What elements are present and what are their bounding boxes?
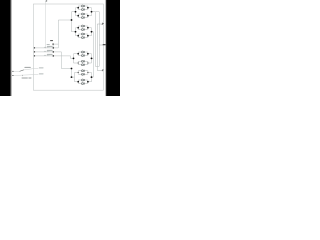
wire feeder link horizontal xyxy=(58,19,71,21)
node D8 left xyxy=(77,81,79,83)
wire module3 feed jog xyxy=(71,56,74,59)
wire right channel link xyxy=(95,65,99,67)
node D5 left xyxy=(77,53,79,55)
node D1 left xyxy=(77,7,79,9)
wire module1 feed xyxy=(72,11,76,13)
wire module4 feed xyxy=(72,76,75,78)
wire module3 right bus xyxy=(91,54,93,63)
label mains text2 xyxy=(28,77,31,78)
wire right channel bus3 xyxy=(96,24,98,71)
node row1 tap xyxy=(53,47,55,49)
terminal X3 xyxy=(34,55,35,56)
terminal X2 xyxy=(34,51,35,52)
node module2 in xyxy=(75,31,77,33)
wire row6 branch stubs xyxy=(74,62,92,64)
node D5 right xyxy=(87,53,89,55)
wire output J1 xyxy=(97,23,103,25)
switch S1b tick xyxy=(22,75,24,76)
wire module2 feed xyxy=(72,31,76,33)
wire row4 branch stubs xyxy=(76,35,92,37)
node D1 right xyxy=(87,7,89,9)
node D3 left xyxy=(77,27,79,29)
node module1 in xyxy=(75,11,77,13)
breaker CB3 xyxy=(44,55,50,56)
wire module3 left bus xyxy=(73,54,75,63)
node D6 left xyxy=(78,62,79,63)
wire phase row3 xyxy=(34,55,70,57)
wire row5 branch stubs xyxy=(74,53,92,55)
wire feeder link vertical xyxy=(57,20,59,48)
switch S1 xyxy=(20,70,24,72)
node D7 right xyxy=(87,72,88,73)
node module2 out xyxy=(91,31,93,33)
node D7 left xyxy=(78,72,79,73)
wire right channel bus1 xyxy=(92,32,94,77)
label T1 bar xyxy=(50,40,53,41)
label S1 xyxy=(24,67,30,68)
node riser tap xyxy=(71,68,73,70)
node D6 right xyxy=(87,62,88,63)
node feeder corner xyxy=(52,43,53,44)
wire right channel bus4 xyxy=(98,12,100,67)
diode pair D4 xyxy=(78,33,88,39)
wire module2 right bus xyxy=(91,28,93,36)
label net2 xyxy=(39,73,44,74)
node module4 in xyxy=(71,76,73,78)
wire row1 branch stubs xyxy=(76,7,92,9)
wire module1 left bus xyxy=(75,8,77,16)
terminal mains N xyxy=(12,75,13,76)
label J2 tag xyxy=(103,44,106,45)
node D4 right xyxy=(87,35,89,37)
node module4 out xyxy=(91,76,93,78)
arrow J1 xyxy=(102,23,104,25)
node row3 tap xyxy=(53,55,55,57)
diode pair D7 xyxy=(78,70,88,76)
node D2 left xyxy=(77,15,79,17)
wire input riser xyxy=(45,2,47,49)
node module1 out xyxy=(91,11,93,13)
wire right channel bus2 xyxy=(94,12,96,67)
diode pair D1 xyxy=(78,5,88,11)
wire module4 left bus xyxy=(74,73,76,82)
wire phase-A riser xyxy=(71,12,73,32)
diode pair D3 xyxy=(78,25,88,31)
wire row8 branch stubs xyxy=(75,81,92,83)
node feeder tap xyxy=(71,19,73,21)
wire output J2 xyxy=(99,44,103,46)
wire mains line2 xyxy=(13,74,39,77)
arrow J3 xyxy=(102,70,103,72)
wire phase row1 xyxy=(34,47,58,49)
diode pair D2 xyxy=(78,13,88,19)
node D3 right xyxy=(87,27,89,29)
breaker CB2 xyxy=(44,51,50,52)
label CB3 value xyxy=(47,53,53,56)
label net1 xyxy=(39,67,44,68)
wire mains line1 xyxy=(13,70,20,72)
label mains text xyxy=(22,77,28,78)
wire mains line1 cont xyxy=(24,69,39,70)
wire module1 output xyxy=(92,11,100,13)
wire row7 branch stubs xyxy=(75,72,92,74)
wire output J3 xyxy=(97,70,103,72)
node D8 right xyxy=(87,81,89,83)
wire row3 branch stubs xyxy=(76,27,92,29)
wire phase row2 xyxy=(34,51,61,53)
off-page arrow P1 (top input) xyxy=(46,1,47,2)
wire module2 left bus xyxy=(75,28,77,36)
node module3 out xyxy=(91,58,93,60)
label feeder corner xyxy=(47,44,50,45)
wire row2 riser xyxy=(61,52,71,69)
node D4 left xyxy=(77,35,79,37)
breaker CB1 xyxy=(44,47,50,48)
node D2 right xyxy=(87,15,89,17)
terminal mains L xyxy=(12,71,13,72)
label CB1 value xyxy=(47,45,53,48)
node module3 in xyxy=(73,58,75,60)
node row2 tap xyxy=(53,51,55,53)
wire module4 output xyxy=(92,76,94,78)
diode pair D5 xyxy=(78,51,88,57)
diode pair D6 xyxy=(78,60,88,66)
terminal X1 xyxy=(34,47,35,48)
diode pair D8 xyxy=(78,79,88,85)
wire module4 riser xyxy=(71,69,73,78)
wire module3 output xyxy=(92,57,94,59)
wire feeder link lower xyxy=(53,44,58,48)
label CB2 value xyxy=(47,49,53,52)
wire module1 right bus xyxy=(91,8,93,16)
wire row2 branch stubs xyxy=(76,15,92,17)
wire module4 right bus xyxy=(91,73,93,82)
wire module2 output xyxy=(92,31,94,33)
